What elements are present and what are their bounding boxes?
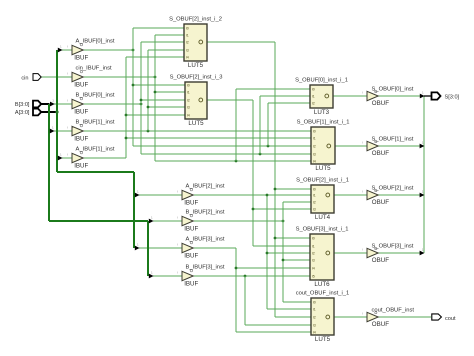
svg-text:LUT5: LUT5: [315, 336, 331, 343]
svg-text:I2: I2: [313, 145, 316, 149]
svg-text:S_OBUF[1]_inst_i_1: S_OBUF[1]_inst_i_1: [297, 120, 350, 126]
svg-text:I2: I2: [313, 316, 316, 320]
svg-text:I2: I2: [312, 252, 315, 256]
svg-text:I1: I1: [313, 137, 316, 141]
svg-text:I3: I3: [187, 106, 190, 110]
svg-text:B_IBUF[0]_inst: B_IBUF[0]_inst: [76, 92, 115, 98]
svg-text:I2: I2: [187, 99, 190, 103]
svg-text:S_OBUF[3]_inst_i_1: S_OBUF[3]_inst_i_1: [296, 227, 349, 233]
svg-text:LUT5: LUT5: [188, 120, 204, 127]
svg-text:cout_OBUF_inst: cout_OBUF_inst: [372, 308, 415, 314]
svg-text:I1: I1: [186, 34, 189, 38]
svg-text:I2: I2: [313, 201, 316, 205]
svg-text:I3: I3: [312, 259, 315, 263]
svg-text:I4: I4: [313, 160, 316, 164]
svg-text:I4: I4: [312, 267, 315, 271]
svg-text:B_IBUF[1]_inst: B_IBUF[1]_inst: [76, 119, 115, 125]
svg-text:I1: I1: [313, 308, 316, 312]
svg-text:LUT5: LUT5: [188, 62, 204, 69]
svg-text:I1: I1: [187, 91, 190, 95]
svg-text:I0: I0: [187, 84, 190, 88]
svg-text:B_IBUF[3]_inst: B_IBUF[3]_inst: [186, 264, 225, 270]
svg-text:I3: I3: [313, 324, 316, 328]
svg-text:IBUF: IBUF: [74, 136, 88, 143]
svg-text:S_OBUF[3]_inst: S_OBUF[3]_inst: [372, 244, 414, 250]
svg-text:S_OBUF[2]_inst_i_2: S_OBUF[2]_inst_i_2: [169, 17, 222, 23]
svg-text:I1: I1: [312, 95, 315, 99]
svg-text:I5: I5: [312, 275, 315, 279]
svg-text:B_IBUF[2]_inst: B_IBUF[2]_inst: [186, 209, 225, 215]
svg-text:I2: I2: [186, 41, 189, 45]
svg-text:I0: I0: [312, 237, 315, 241]
svg-text:S_OBUF[0]_inst: S_OBUF[0]_inst: [372, 87, 414, 93]
svg-text:I4: I4: [187, 114, 190, 118]
svg-text:S_OBUF[2]_inst_i_3: S_OBUF[2]_inst_i_3: [170, 75, 223, 81]
svg-text:IBUF: IBUF: [74, 109, 88, 116]
svg-text:I2: I2: [312, 102, 315, 106]
svg-text:I0: I0: [186, 27, 189, 31]
svg-text:IBUF: IBUF: [184, 200, 198, 207]
svg-text:A_IBUF[0]_inst: A_IBUF[0]_inst: [76, 38, 115, 44]
svg-text:OBUF: OBUF: [372, 321, 389, 328]
svg-text:I0: I0: [313, 188, 316, 192]
svg-text:S[3:0]: S[3:0]: [445, 94, 460, 100]
svg-text:I3: I3: [313, 153, 316, 157]
svg-text:S_OBUF[2]_inst: S_OBUF[2]_inst: [372, 186, 414, 192]
svg-text:I1: I1: [313, 194, 316, 198]
svg-text:IBUF: IBUF: [74, 82, 88, 89]
svg-text:S_OBUF[1]_inst: S_OBUF[1]_inst: [372, 137, 414, 143]
svg-text:A_IBUF[1]_inst: A_IBUF[1]_inst: [76, 146, 115, 152]
svg-text:I0: I0: [313, 301, 316, 305]
svg-text:OBUF: OBUF: [372, 257, 389, 264]
svg-text:OBUF: OBUF: [372, 150, 389, 157]
svg-text:OBUF: OBUF: [372, 100, 389, 107]
svg-text:S_OBUF[2]_inst_i_1: S_OBUF[2]_inst_i_1: [296, 178, 349, 184]
svg-text:IBUF: IBUF: [184, 253, 198, 260]
svg-text:A_IBUF[3]_inst: A_IBUF[3]_inst: [186, 236, 225, 242]
svg-text:cin_IBUF_inst: cin_IBUF_inst: [76, 65, 112, 71]
svg-text:IBUF: IBUF: [74, 163, 88, 170]
svg-text:LUT6: LUT6: [314, 281, 330, 288]
svg-text:B[3:0]: B[3:0]: [15, 102, 30, 108]
svg-text:LUT3: LUT3: [314, 109, 330, 116]
svg-text:LUT5: LUT5: [315, 165, 331, 172]
svg-text:I4: I4: [313, 331, 316, 335]
svg-text:cin: cin: [21, 75, 28, 81]
svg-text:A_IBUF[2]_inst: A_IBUF[2]_inst: [186, 183, 225, 189]
svg-text:cout: cout: [445, 316, 456, 322]
svg-text:LUT4: LUT4: [315, 214, 331, 221]
svg-text:IBUF: IBUF: [184, 281, 198, 288]
svg-text:OBUF: OBUF: [372, 199, 389, 206]
svg-text:I0: I0: [313, 130, 316, 134]
svg-text:I3: I3: [313, 208, 316, 212]
svg-text:I3: I3: [186, 49, 189, 53]
svg-text:I4: I4: [186, 56, 189, 60]
svg-text:A[3:0]: A[3:0]: [15, 110, 30, 116]
svg-text:I1: I1: [312, 245, 315, 249]
svg-text:I0: I0: [312, 88, 315, 92]
svg-text:S_OBUF[0]_inst_i_1: S_OBUF[0]_inst_i_1: [295, 78, 348, 84]
svg-text:cout_OBUF_inst_i_1: cout_OBUF_inst_i_1: [296, 291, 350, 297]
svg-text:IBUF: IBUF: [184, 226, 198, 233]
svg-text:IBUF: IBUF: [74, 55, 88, 62]
